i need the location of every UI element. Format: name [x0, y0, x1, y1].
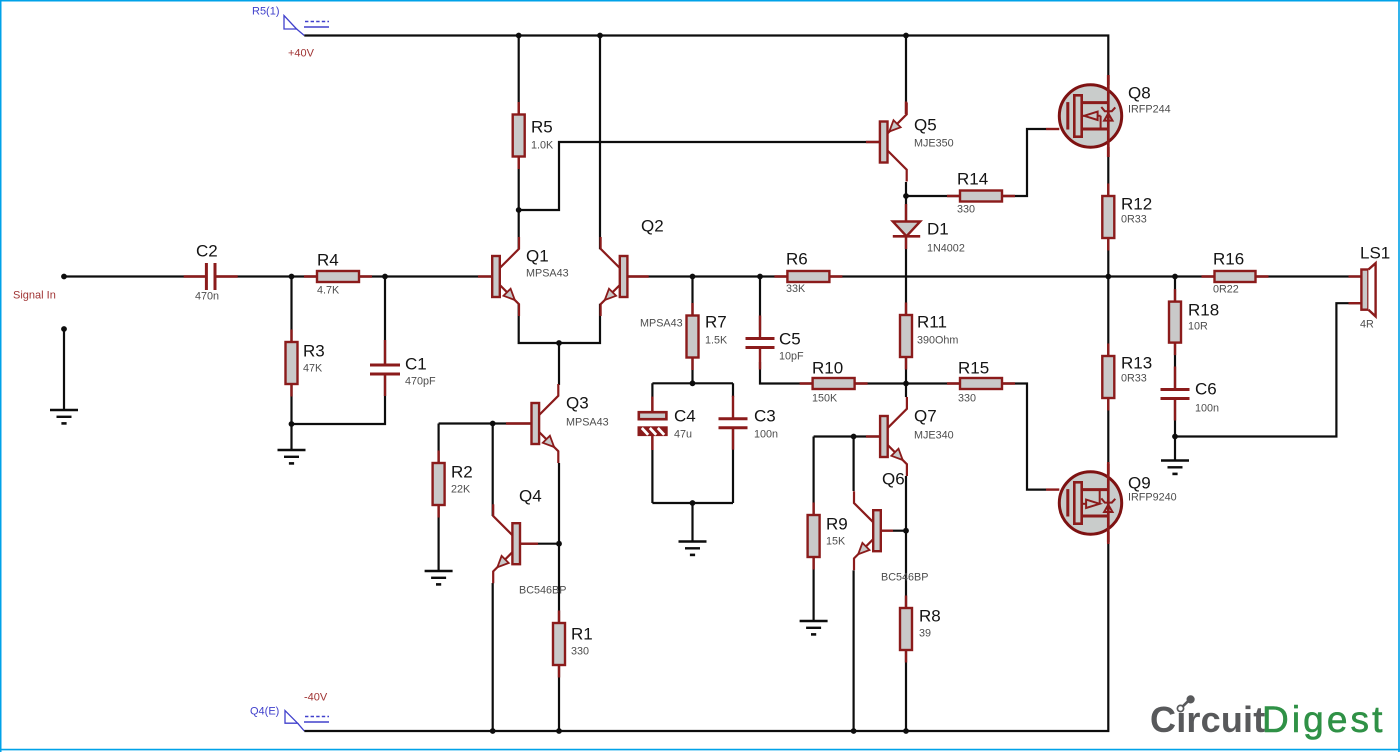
- wire C4 branch: [651, 383, 653, 503]
- resistor R4 4.7K: [304, 251, 372, 297]
- transistor Q5 base lead: [866, 141, 880, 143]
- svg-text:Q4(E): Q4(E): [250, 706, 279, 718]
- transistor Q1 MPSA43: [492, 237, 568, 316]
- svg-text:R16: R16: [1213, 250, 1244, 269]
- transistor Q7 base lead: [866, 435, 880, 437]
- svg-text:R14: R14: [957, 170, 988, 189]
- label Signal In: [13, 290, 56, 302]
- wire R2 to Q3 base: [439, 422, 532, 424]
- svg-text:R7: R7: [705, 313, 727, 332]
- wire Q7 collector stub: [905, 384, 907, 398]
- resistor R13 0R33: [1102, 344, 1152, 411]
- svg-text:R2: R2: [451, 463, 473, 482]
- svg-text:R1: R1: [571, 625, 593, 644]
- node input ground: [61, 326, 67, 332]
- wire R1 branch: [558, 544, 560, 731]
- svg-text:Q4: Q4: [519, 487, 542, 506]
- node R3 bottom: [289, 421, 295, 427]
- node rail Q4: [490, 728, 496, 734]
- transistor Q4 BC546BP: [493, 487, 566, 597]
- svg-text:0R22: 0R22: [1213, 284, 1239, 296]
- wire R9 to Q7 base: [814, 435, 880, 437]
- transistor Q5 emitter lead: [905, 102, 907, 115]
- node C4 C3 bottom: [690, 500, 696, 506]
- ground input: [50, 410, 78, 423]
- wire C1 branch upper: [384, 277, 386, 366]
- ground C6: [1161, 461, 1189, 474]
- svg-text:47u: 47u: [674, 429, 692, 441]
- transistor Q3 MPSA43: [532, 384, 609, 463]
- power terminal R5(1) +40V: [252, 6, 329, 60]
- svg-text:100n: 100n: [754, 429, 778, 441]
- wire Q8 source to R12 R13: [1107, 157, 1109, 464]
- svg-text:+40V: +40V: [288, 48, 315, 60]
- transistor Q7 MJE340: [880, 397, 954, 476]
- wire R3 branch: [290, 277, 292, 451]
- power terminal Q4(E) -40V: [250, 692, 329, 732]
- node R7 bottom: [690, 380, 696, 386]
- svg-text:MPSA43: MPSA43: [640, 318, 683, 330]
- node Q6 base: [903, 528, 909, 534]
- wire C2 to Q1 base: [215, 275, 492, 277]
- wire Q6 collector riser: [852, 437, 854, 492]
- svg-text:MJE350: MJE350: [914, 138, 954, 150]
- MOSFET Q8 drain lead: [1107, 75, 1110, 85]
- svg-text:100n: 100n: [1195, 403, 1219, 415]
- capacitor C4 47u: [639, 397, 696, 450]
- wire C5 branch upper: [759, 277, 761, 331]
- svg-text:R12: R12: [1121, 195, 1152, 214]
- svg-text:C3: C3: [754, 407, 776, 426]
- svg-text:LS1: LS1: [1360, 244, 1390, 263]
- svg-text:47K: 47K: [303, 363, 323, 375]
- svg-text:R5(1): R5(1): [252, 6, 280, 18]
- node rail R1: [556, 728, 562, 734]
- wire main output line: [627, 275, 1361, 277]
- capacitor C6 100n: [1161, 367, 1220, 421]
- MOSFET Q9 IRFP9240: [1059, 462, 1176, 544]
- svg-text:R5: R5: [531, 118, 553, 137]
- resistor R8 39: [900, 596, 941, 663]
- node Q4 collector: [490, 421, 496, 427]
- svg-text:Q5: Q5: [914, 116, 937, 135]
- resistor R9 15K: [808, 503, 848, 570]
- svg-text:C4: C4: [674, 407, 696, 426]
- svg-text:39: 39: [919, 628, 931, 640]
- svg-text:1N4002: 1N4002: [927, 243, 965, 255]
- wire R7 branch: [691, 277, 693, 384]
- svg-text:R9: R9: [826, 515, 848, 534]
- wire Q6 emitter drop: [852, 570, 854, 731]
- resistor R12 0R33: [1102, 184, 1152, 251]
- svg-text:C5: C5: [779, 330, 801, 349]
- svg-text:150K: 150K: [812, 393, 838, 405]
- wire C3 branch: [732, 383, 734, 503]
- svg-text:R10: R10: [812, 359, 843, 378]
- svg-text:Q2: Q2: [641, 217, 664, 236]
- wire Q4 base link: [520, 543, 559, 545]
- svg-text:C6: C6: [1195, 380, 1217, 399]
- node VAS R10 R15: [903, 381, 909, 387]
- wire Q2 collector to top rail: [599, 36, 601, 250]
- node C5 top: [757, 274, 763, 280]
- capacitor C3 100n: [719, 396, 779, 450]
- node Q5 collector D1 R14: [903, 193, 909, 199]
- wire Q5 emitter to top rail: [905, 36, 907, 115]
- ground R3 C1: [278, 450, 306, 463]
- node emitter rail: [556, 340, 562, 346]
- MOSFET Q9 drain lead: [1107, 464, 1110, 474]
- ground R9: [800, 621, 828, 634]
- svg-text:10R: 10R: [1188, 321, 1208, 333]
- svg-text:Signal In: Signal In: [13, 290, 56, 302]
- resistor R7 1.5K: [687, 303, 729, 370]
- wire R18 C6 branch upper: [1174, 277, 1176, 390]
- svg-text:MPSA43: MPSA43: [526, 268, 569, 280]
- svg-text:Q7: Q7: [914, 407, 937, 426]
- wire Q4 emitter drop: [492, 583, 494, 731]
- MOSFET Q8 source lead: [1107, 147, 1110, 157]
- svg-text:Q9: Q9: [1128, 474, 1151, 493]
- wire Q4 collector riser: [492, 424, 494, 517]
- resistor R16 0R22: [1202, 250, 1269, 296]
- svg-text:R8: R8: [919, 607, 941, 626]
- node top rail / R5: [516, 33, 522, 39]
- node signal input: [61, 274, 67, 280]
- resistor R6 33K: [774, 250, 842, 296]
- wire Q1 Q2 emitter rail: [519, 304, 600, 343]
- logo CircuitDigest: [1150, 695, 1385, 740]
- svg-text:330: 330: [958, 393, 976, 405]
- svg-text:R15: R15: [958, 359, 989, 378]
- svg-text:Q6: Q6: [882, 470, 905, 489]
- resistor R1 330: [553, 611, 593, 678]
- svg-text:390Ohm: 390Ohm: [917, 335, 958, 347]
- transistor Q3 base lead: [506, 422, 532, 424]
- wire R5 junction to Q5 base: [519, 142, 880, 210]
- node C6 speaker return: [1172, 434, 1178, 440]
- svg-text:C2: C2: [196, 242, 218, 261]
- wire speaker return: [1175, 303, 1361, 436]
- MOSFET Q8 gate lead: [1046, 128, 1059, 130]
- wire R14 to Q8 gate: [906, 129, 1046, 196]
- transistor Q6 BC546BP: [854, 470, 928, 584]
- svg-text:4.7K: 4.7K: [317, 285, 340, 297]
- wire C4 C3 top link: [652, 382, 733, 384]
- svg-text:1.5K: 1.5K: [705, 335, 728, 347]
- wire -40V bottom rail: [304, 542, 1108, 731]
- resistor R3 47K: [286, 330, 325, 397]
- transistor Q4 base lead: [520, 543, 538, 545]
- svg-text:Digest: Digest: [1262, 699, 1385, 740]
- svg-text:Cırcuit: Cırcuit: [1150, 699, 1265, 740]
- svg-text:33K: 33K: [786, 283, 806, 295]
- svg-text:R18: R18: [1188, 301, 1219, 320]
- svg-text:0R33: 0R33: [1121, 214, 1147, 226]
- node C1 top: [382, 274, 388, 280]
- resistor R5 1.0K: [513, 102, 554, 169]
- svg-text:IRFP244: IRFP244: [1128, 104, 1171, 116]
- svg-text:330: 330: [571, 646, 589, 658]
- svg-text:4R: 4R: [1360, 319, 1374, 331]
- node R7 top: [690, 274, 696, 280]
- wire Q6 base link: [893, 530, 906, 532]
- svg-text:470n: 470n: [195, 291, 219, 303]
- node output R18: [1172, 274, 1178, 280]
- transistor Q1 base lead: [478, 275, 492, 277]
- svg-text:15K: 15K: [826, 536, 846, 548]
- transistor Q2 MPSA43: [601, 217, 683, 330]
- node Q4 base R1: [556, 541, 562, 547]
- MOSFET Q9 gate lead: [1046, 488, 1059, 490]
- node Q7 base R9: [851, 434, 857, 440]
- resistor R14 330: [947, 170, 1015, 216]
- resistor R10 150K: [800, 359, 868, 405]
- wire C6 lower: [1174, 399, 1176, 461]
- node rail R8: [903, 728, 909, 734]
- MOSFET Q8 IRFP244: [1059, 75, 1170, 157]
- resistor R11 390Ohm: [900, 303, 958, 370]
- svg-text:470pF: 470pF: [405, 376, 436, 388]
- svg-text:R13: R13: [1121, 354, 1152, 373]
- svg-text:R4: R4: [317, 251, 339, 270]
- wire Q7 emitter to Q6 base node: [905, 476, 907, 531]
- svg-text:Q3: Q3: [566, 394, 589, 413]
- transistor Q6 base lead: [881, 530, 893, 532]
- node R3 top: [289, 274, 295, 280]
- svg-text:330: 330: [957, 204, 975, 216]
- svg-text:BC546BP: BC546BP: [519, 585, 566, 597]
- capacitor C1 470pF: [370, 340, 436, 396]
- svg-text:R6: R6: [786, 250, 808, 269]
- node top rail / Q2: [597, 33, 603, 39]
- wire D1 R11 branch: [905, 196, 907, 384]
- speaker LS1 4R: [1349, 244, 1391, 331]
- svg-text:BC546BP: BC546BP: [881, 572, 928, 584]
- svg-text:Q8: Q8: [1128, 84, 1151, 103]
- wire C4 C3 ground stub: [691, 503, 693, 542]
- diode D1 1N4002: [893, 204, 965, 255]
- svg-text:R3: R3: [303, 342, 325, 361]
- ground R2: [425, 571, 453, 584]
- node top rail / Q5: [903, 33, 909, 39]
- resistor R18 10R: [1169, 289, 1219, 355]
- wire R8 branch: [905, 531, 907, 731]
- ground C4 C3: [679, 542, 707, 555]
- wire Q3 emitter to Q4 base node: [558, 463, 560, 544]
- transistor Q2 base lead: [627, 275, 648, 277]
- svg-text:Q1: Q1: [526, 247, 549, 266]
- capacitor C5 10pF: [746, 316, 805, 370]
- svg-text:IRFP9240: IRFP9240: [1128, 492, 1177, 504]
- capacitor C2 470n: [184, 242, 238, 303]
- svg-text:C1: C1: [405, 355, 427, 374]
- MOSFET Q9 source lead: [1107, 532, 1110, 542]
- svg-text:D1: D1: [927, 220, 949, 239]
- svg-text:-40V: -40V: [304, 692, 328, 704]
- svg-text:MPSA43: MPSA43: [566, 417, 609, 429]
- wire R2 branch: [438, 424, 440, 572]
- transistor Q5 MJE350: [880, 103, 954, 182]
- node R5 bottom: [516, 207, 522, 213]
- svg-text:MJE340: MJE340: [914, 430, 954, 442]
- wire emitter rail to Q3 collector: [558, 343, 560, 385]
- wire input ground stub: [63, 329, 65, 410]
- wire signal input segment: [64, 275, 207, 277]
- svg-text:22K: 22K: [451, 484, 471, 496]
- wire C5 bottom / R10 R15 line to Q9 gate: [760, 362, 1046, 490]
- wire +40V top rail: [304, 36, 1108, 76]
- wire R5 branch / Q1 collector: [518, 36, 520, 250]
- resistor R2 22K: [433, 451, 473, 518]
- svg-text:10pF: 10pF: [779, 351, 804, 363]
- wire C4 C3 bottom link: [652, 502, 733, 504]
- node rail Q6: [851, 728, 857, 734]
- wire Q5 collector drop: [905, 182, 907, 196]
- svg-text:0R33: 0R33: [1121, 373, 1147, 385]
- wire R9 branch: [812, 437, 814, 622]
- svg-text:1.0K: 1.0K: [531, 140, 554, 152]
- svg-text:R11: R11: [917, 313, 947, 332]
- wire C1 bottom to R3: [292, 374, 386, 424]
- node output R12: [1105, 274, 1111, 280]
- resistor R15 330: [947, 359, 1015, 405]
